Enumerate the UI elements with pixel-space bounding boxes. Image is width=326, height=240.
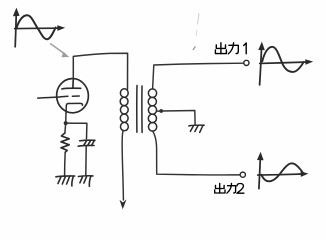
- wire junction to capacitor Ck: [66, 123, 87, 139]
- output 1 signal graph: vertical axis: [260, 47, 262, 85]
- annotation arrow (gray) from input graph to grid wire: [51, 44, 66, 55]
- node: secondary center tap: [159, 109, 163, 113]
- output 1 signal graph: horizontal axis: [260, 62, 308, 63]
- V1 grid input lead wire: [38, 97, 61, 98]
- input signal graph: vertical axis: [15, 13, 16, 47]
- V1 plate: [62, 79, 81, 89]
- wire center tap to ground: [157, 111, 195, 125]
- ground (cathode resistor): [56, 176, 75, 186]
- output 1 waveform: [262, 47, 303, 72]
- wire tube plate to transformer primary: [73, 53, 127, 89]
- wire secondary bottom to output 2 terminal: [153, 131, 240, 175]
- output 2 signal graph: horizontal axis: [258, 174, 304, 175]
- input signal graph: horizontal axis arrowhead: [57, 25, 65, 31]
- transformer T1 secondary winding: [148, 89, 157, 131]
- ground (capacitor): [78, 176, 93, 186]
- output 2 waveform: [261, 163, 303, 181]
- V1 grid (dashed): [61, 95, 79, 98]
- wire cathode to junction: [65, 113, 66, 133]
- resistor Rk (cathode resistor): [61, 133, 69, 152]
- input signal graph: vertical axis arrowhead: [13, 8, 20, 17]
- input signal graph: horizontal axis: [15, 27, 61, 30]
- label 出力2: [215, 183, 244, 193]
- node: cathode junction: [64, 121, 68, 125]
- transformer T1 core: [137, 86, 142, 133]
- label 出力1: [215, 43, 246, 54]
- output 1 terminal: [244, 60, 249, 65]
- transformer T1 primary winding: [120, 89, 128, 131]
- wire resistor Rk to ground: [64, 152, 67, 175]
- wire primary bottom to B+ (down arrow): [122, 131, 123, 201]
- wire secondary top to output 1 terminal: [153, 63, 244, 89]
- capacitor Ck (cathode bypass): [78, 140, 95, 146]
- output 2 signal graph: vertical axis: [259, 157, 261, 189]
- V1 cathode: [66, 103, 83, 113]
- ground (center tap): [189, 125, 204, 132]
- output 2 terminal: [240, 172, 245, 177]
- input signal waveform: [16, 15, 55, 39]
- scan speck: [193, 47, 195, 50]
- vacuum tube V1 envelope: [56, 78, 90, 114]
- wire capacitor Ck to ground: [85, 146, 87, 175]
